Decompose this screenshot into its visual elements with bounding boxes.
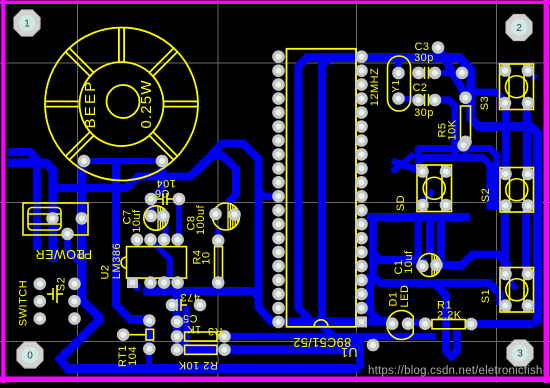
svg-text:2: 2	[516, 23, 522, 34]
svg-text:3: 3	[517, 348, 523, 359]
svg-text:30p: 30p	[414, 107, 434, 119]
svg-text:C2: C2	[412, 82, 427, 94]
svg-text:LED: LED	[399, 285, 411, 308]
svg-text:U1: U1	[341, 345, 358, 359]
svg-text:10: 10	[201, 251, 213, 264]
svg-text:12MHZ: 12MHZ	[369, 68, 381, 107]
svg-text:https://blog.csdn.net/eletroni: https://blog.csdn.net/eletronicfish	[368, 365, 543, 377]
svg-text:S2: S2	[480, 188, 492, 202]
svg-text:R2 10K: R2 10K	[178, 359, 218, 371]
svg-text:1: 1	[24, 18, 30, 29]
svg-text:SWITCH: SWITCH	[18, 280, 30, 326]
svg-text:S1: S1	[480, 289, 492, 303]
svg-text:1K: 1K	[187, 323, 202, 335]
svg-text:100uf: 100uf	[195, 205, 207, 235]
svg-text:10uf: 10uf	[131, 209, 143, 233]
svg-text:10uf: 10uf	[403, 250, 415, 274]
svg-text:S3: S3	[479, 96, 491, 110]
svg-text:Y1: Y1	[391, 79, 402, 92]
svg-text:104: 104	[127, 346, 139, 366]
svg-text:U2: U2	[100, 264, 112, 279]
svg-text:POWER: POWER	[35, 247, 85, 261]
svg-text:0.25W: 0.25W	[138, 79, 155, 128]
svg-text:SD: SD	[395, 195, 407, 211]
svg-text:LM386: LM386	[111, 243, 123, 279]
svg-text:C5: C5	[182, 312, 197, 324]
svg-text:0: 0	[27, 350, 33, 361]
svg-text:D1: D1	[388, 291, 400, 306]
svg-text:R3: R3	[207, 325, 222, 337]
svg-text:BEEP: BEEP	[82, 80, 99, 129]
svg-text:10K: 10K	[447, 119, 459, 140]
svg-text:2.2K: 2.2K	[437, 310, 462, 322]
svg-text:30p: 30p	[414, 52, 434, 64]
